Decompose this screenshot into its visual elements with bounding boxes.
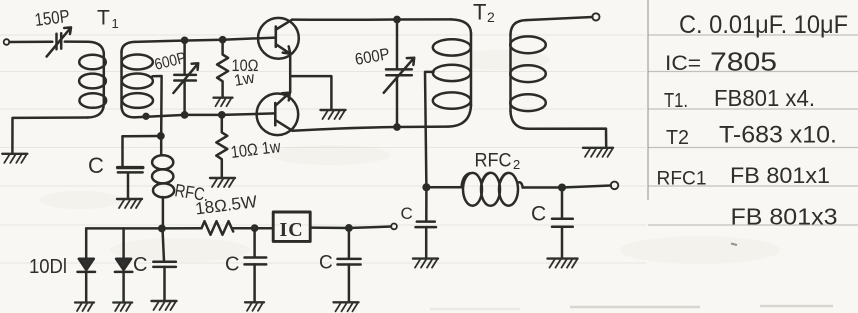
transistor Q1	[258, 18, 299, 59]
svg-text:T: T	[473, 0, 486, 25]
T2 center tap wire	[425, 72, 434, 187]
svg-text:T2: T2	[666, 127, 689, 149]
svg-text:150P: 150P	[34, 6, 71, 30]
bottom rail	[86, 227, 201, 230]
IC U1 7805	[273, 212, 310, 241]
ground R2	[210, 178, 235, 187]
ground C3	[245, 302, 264, 311]
svg-text:600P: 600P	[354, 45, 392, 69]
transformer T1 secondary	[121, 42, 135, 53]
capacitor C2	[159, 226, 164, 231]
svg-text:FB 801x3: FB 801x3	[731, 204, 838, 230]
ground emitters	[321, 110, 346, 119]
wire emitters to ground	[290, 76, 331, 110]
wire Q1 emitter to Q2	[289, 54, 292, 93]
capacitor C4	[348, 228, 351, 258]
wire T1 bottom to Q2 base	[134, 113, 275, 117]
node dot	[220, 37, 225, 42]
capacitor C3	[253, 228, 256, 257]
transistor Q2	[257, 94, 299, 136]
ground C4	[334, 302, 359, 311]
svg-text:C: C	[319, 253, 333, 274]
svg-text:RFC: RFC	[475, 151, 512, 172]
margin line	[647, 0, 649, 200]
resistor R1 10ohm 1W	[217, 40, 228, 98]
input terminal J1	[4, 39, 10, 45]
bottom edge smudge	[430, 306, 833, 309]
ground T2	[583, 148, 613, 157]
svg-text:RFC1: RFC1	[657, 168, 707, 190]
svg-text:10Dl: 10Dl	[29, 256, 67, 278]
terminal RFC2 out	[611, 182, 619, 190]
inductor RFC2	[463, 173, 482, 206]
output terminal T2	[592, 13, 599, 20]
wire T1 top to Q1 base	[135, 38, 276, 42]
capacitor 150P trimmer	[57, 33, 62, 49]
wire T2 secondary bottom	[529, 129, 606, 148]
ground D1	[75, 303, 94, 312]
wire to RFC2	[426, 186, 461, 189]
T1 center tap wire	[153, 76, 162, 136]
node dot RFC2 left	[424, 185, 430, 191]
inductor RFC1	[160, 136, 163, 155]
ground C2	[152, 301, 177, 310]
svg-text:1: 1	[112, 16, 119, 31]
diode D1	[85, 228, 88, 258]
svg-text:C: C	[133, 254, 147, 276]
ground C6	[548, 259, 578, 268]
svg-text:C: C	[88, 153, 104, 178]
svg-text:600P: 600P	[153, 50, 188, 74]
svg-text:C: C	[225, 254, 239, 276]
svg-text:1w: 1w	[233, 70, 257, 90]
capacitor VC2 600P	[183, 40, 186, 74]
svg-text:2: 2	[487, 9, 495, 25]
ground C5	[413, 259, 438, 268]
node dot	[144, 114, 149, 119]
transformer T2 secondary	[511, 20, 527, 34]
svg-text:IC=: IC=	[665, 52, 701, 75]
paper ruled lines	[0, 35, 646, 263]
resistor R3 18ohm 5W	[202, 221, 234, 235]
wire input	[9, 40, 52, 43]
capacitor C5	[425, 187, 428, 221]
capacitor C1	[123, 135, 161, 138]
node dot	[158, 133, 163, 138]
ground input	[2, 154, 27, 163]
svg-text:C: C	[401, 204, 413, 223]
svg-text:IC: IC	[280, 219, 304, 241]
wire RFC2 to terminal	[523, 186, 563, 189]
wire T1 primary bottom	[12, 118, 87, 154]
node dot	[252, 226, 257, 231]
node dot	[394, 124, 399, 129]
node dot	[394, 17, 399, 22]
node dot RFC2 right	[559, 185, 565, 191]
ground D2	[113, 303, 132, 312]
svg-text:T1.: T1.	[664, 90, 688, 112]
wire Q2 collector bottom	[293, 127, 448, 131]
svg-text:T-683 x10.: T-683 x10.	[719, 122, 837, 149]
ground C1	[117, 199, 142, 208]
transformer T1 primary	[103, 53, 106, 105]
svg-text:T: T	[97, 7, 110, 30]
transformer T2 primary	[451, 19, 471, 33]
svg-text:C. 0.01μF. 10μF: C. 0.01μF. 10μF	[679, 11, 848, 39]
wire to T1	[88, 42, 104, 53]
node dot	[346, 225, 351, 230]
ground R1	[214, 98, 233, 107]
svg-text:FB 801x1: FB 801x1	[730, 163, 830, 188]
wire Q1 collector top rail	[292, 18, 451, 21]
svg-text:7805: 7805	[710, 47, 777, 77]
node dot	[182, 38, 187, 43]
capacitor C6	[561, 188, 564, 219]
wire T2 secondary top to output	[526, 17, 592, 20]
resistor R2 10ohm 1W	[216, 115, 227, 178]
svg-text:C: C	[531, 203, 546, 226]
svg-text:2: 2	[513, 157, 520, 172]
svg-text:FB801 x4.: FB801 x4.	[714, 85, 815, 111]
diode D2	[122, 228, 125, 258]
node dot	[182, 112, 187, 117]
terminal IC out	[391, 224, 397, 230]
node dot	[219, 112, 224, 117]
capacitor VC3 600P	[396, 20, 399, 69]
wire IC out	[310, 227, 391, 229]
